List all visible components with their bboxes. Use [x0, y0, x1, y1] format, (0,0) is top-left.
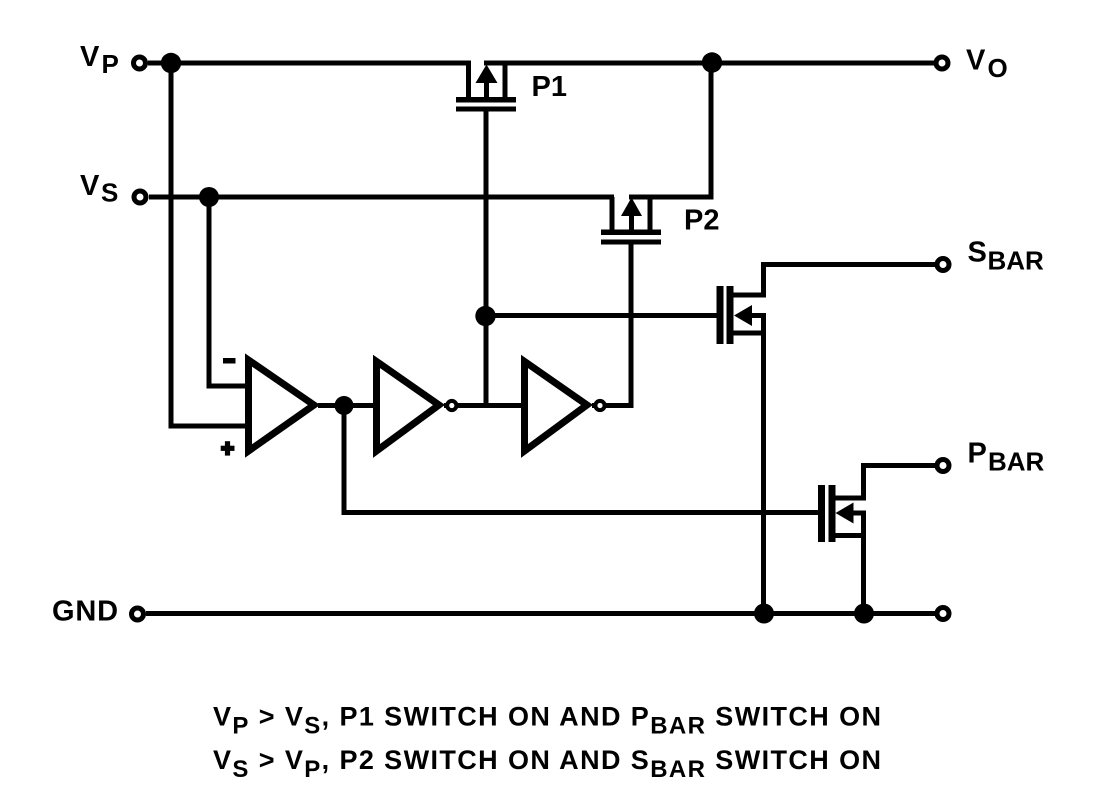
gate bar	[717, 286, 724, 344]
wire P_BAR source down to GND	[861, 513, 866, 614]
inverter U2	[377, 361, 440, 451]
wire inverter1 output	[444, 403, 525, 408]
wire S_BAR source down to GND	[761, 316, 766, 614]
node V_S junction	[199, 187, 219, 207]
node comparator output junction	[335, 396, 354, 415]
wire gate node to S_BAR NMOS gate	[486, 313, 718, 318]
svg-text:S: S	[101, 178, 118, 208]
wire vertical from V_P node down to comparator + input	[171, 63, 250, 426]
wire vertical from V_S node down to comparator - input	[209, 197, 250, 386]
P2 drain stub	[648, 197, 653, 233]
wire inverter2 output	[592, 403, 631, 408]
svg-text:P2: P2	[684, 205, 719, 237]
wire V_P top rail left segment	[148, 61, 471, 66]
source stub	[833, 533, 864, 538]
svg-text:BAR: BAR	[988, 246, 1045, 276]
wire comparator output	[318, 403, 376, 408]
node GND junction 2	[854, 604, 874, 624]
P2 bulk arrow	[629, 207, 634, 233]
wire V_P top rail right segment to V_O	[484, 61, 935, 66]
comparator U1	[221, 358, 314, 456]
svg-text:P1: P1	[532, 71, 567, 103]
gate bar	[818, 485, 825, 542]
P2 channel bar	[601, 230, 661, 236]
transistor Q2 (P_BAR switch)	[818, 466, 866, 543]
P1 drain stub	[503, 63, 508, 100]
P1 channel bar	[456, 97, 516, 103]
wire S_BAR drain to terminal	[761, 262, 935, 267]
terminal GND right	[937, 608, 949, 620]
channel bar	[829, 485, 836, 542]
wire V_S rail	[149, 195, 614, 200]
svg-text:V: V	[80, 41, 100, 73]
terminal V_O	[936, 57, 948, 69]
minus sign	[223, 358, 236, 364]
P2 gate bar	[601, 240, 661, 245]
terminal S_BAR	[937, 259, 949, 271]
source stub	[731, 331, 764, 336]
wire P2 drain to top-right node	[629, 63, 711, 197]
wire P2 gate line down to inverter2 output	[601, 244, 631, 406]
transistor P1	[456, 63, 516, 112]
svg-text:V: V	[80, 170, 100, 202]
svg-text:S: S	[968, 237, 987, 269]
plus sign	[221, 446, 235, 451]
terminal GND left	[132, 608, 144, 620]
wire P1 gate line down	[484, 111, 489, 406]
wire P_BAR drain to terminal	[861, 463, 936, 468]
transistor P2	[601, 197, 661, 245]
node V_P junction	[161, 53, 181, 73]
P1 gate bar	[456, 107, 516, 112]
node V_O junction	[702, 52, 722, 72]
transistor Q1 (S_BAR switch)	[717, 265, 767, 345]
node gate junction	[475, 306, 495, 326]
svg-text:GND: GND	[52, 596, 119, 628]
bulk arrow	[734, 305, 752, 326]
bulk arrow	[836, 503, 854, 524]
svg-text:O: O	[988, 53, 1008, 83]
svg-text:BAR: BAR	[988, 447, 1045, 477]
terminal V_S	[134, 191, 146, 203]
channel bar	[727, 286, 734, 344]
drain stub	[833, 466, 864, 499]
wire GND rail	[146, 611, 935, 616]
inverter U3 bubble	[595, 401, 604, 410]
svg-text:P: P	[968, 438, 987, 470]
P1 source stub	[466, 63, 471, 100]
inverter U2 bubble	[447, 401, 456, 410]
node GND junction 1	[754, 604, 774, 624]
svg-text:V: V	[966, 45, 986, 77]
svg-text:P: P	[102, 49, 119, 79]
inverter U3	[525, 361, 588, 451]
wire comparator output down to P_BAR NMOS gate	[344, 406, 819, 513]
P2 source stub	[610, 197, 615, 233]
terminal V_P	[134, 57, 146, 69]
drain stub	[731, 265, 764, 296]
P1 bulk arrow	[484, 74, 489, 100]
terminal P_BAR	[937, 460, 949, 472]
